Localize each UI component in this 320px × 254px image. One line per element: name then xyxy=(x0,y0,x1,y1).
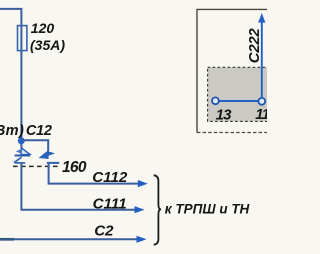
arrow C2 xyxy=(137,236,147,243)
switch 160 pole 1 (left contact) xyxy=(14,148,30,163)
arrow C111 xyxy=(135,206,145,213)
svg-text:C222: C222 xyxy=(246,28,263,64)
svg-text:C12: C12 xyxy=(26,123,52,139)
svg-text:Вт): Вт) xyxy=(0,123,24,139)
wire C222 rising from pin 11 xyxy=(261,20,263,98)
switch 160 pole 2 (right contact) xyxy=(40,151,59,163)
svg-text:11: 11 xyxy=(255,106,267,123)
svg-text:(35A): (35A) xyxy=(30,37,65,53)
wire between pins 13 and 11 xyxy=(215,100,261,102)
svg-text:13: 13 xyxy=(216,107,233,124)
wire: top feed from left edge into fuse branch xyxy=(0,9,21,149)
pin 13 terminal xyxy=(212,97,219,104)
svg-text:C111: C111 xyxy=(93,196,127,213)
svg-text:C112: C112 xyxy=(92,169,128,186)
brace grouping outputs xyxy=(154,175,161,244)
arrow C222 (up) xyxy=(258,13,265,23)
wire C111: pole 1 down and right xyxy=(21,163,137,210)
node C12 junction dot xyxy=(18,137,25,144)
arrow C112 xyxy=(138,180,148,187)
shaded board area xyxy=(208,67,276,121)
module box (inset, clipped at right edge) xyxy=(197,9,275,132)
wire C112: pole 2 down and right xyxy=(49,164,140,184)
wire: junction to right switch pole xyxy=(21,140,48,151)
svg-text:к ТРПШ и ТН: к ТРПШ и ТН xyxy=(165,201,250,216)
mechanical link (dashed) of switch 160 xyxy=(13,165,61,167)
pin 11 terminal xyxy=(258,98,265,105)
fuse 120 xyxy=(18,26,27,51)
svg-text:120: 120 xyxy=(31,20,55,36)
wire C2 from left edge xyxy=(0,238,139,240)
svg-text:160: 160 xyxy=(62,159,87,176)
svg-text:C2: C2 xyxy=(94,223,114,240)
